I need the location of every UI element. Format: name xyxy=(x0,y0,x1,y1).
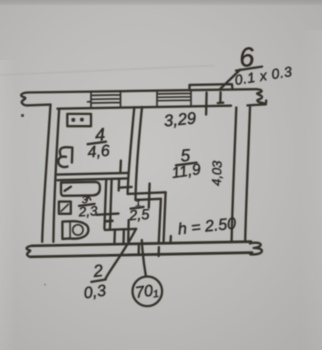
wall: top exterior, bottom line left stub xyxy=(27,103,51,106)
door tick hallway/room5 xyxy=(148,184,151,208)
closet door jamb ticks xyxy=(114,220,128,244)
wall: bathroom/hallway, left line xyxy=(104,180,106,229)
svg-text:4,6: 4,6 xyxy=(87,143,111,162)
underline of 1 xyxy=(131,207,144,209)
wall: hallway top, bottom line xyxy=(136,199,161,200)
bathtub xyxy=(61,182,100,196)
underline of 4 xyxy=(88,142,106,145)
underline of 3 xyxy=(79,204,95,206)
stove in kitchen xyxy=(67,114,91,126)
wall: bathroom/hallway, right line xyxy=(110,180,112,229)
svg-text:0,3: 0,3 xyxy=(83,283,107,303)
wall: bottom exterior, top line xyxy=(32,242,251,246)
balcony door jamb ticks xyxy=(206,92,223,114)
door symbol room4 bottom-left xyxy=(58,147,72,167)
wall: right exterior, left line xyxy=(232,108,237,242)
vent box 6 above wall xyxy=(190,84,233,90)
window W2 in top wall xyxy=(157,90,191,106)
leader line to circle 70 xyxy=(142,240,146,276)
door tick across hallway-left wall xyxy=(121,186,132,189)
wall break: top-right zigzag xyxy=(256,89,266,104)
wall: bottom exterior, bottom line xyxy=(31,253,253,257)
svg-text:2,5: 2,5 xyxy=(128,207,151,225)
wall: top exterior, inner line xyxy=(58,106,232,109)
wall: room4/room5 partition, right line xyxy=(136,107,143,200)
bathtub faucet tick xyxy=(65,187,71,191)
wall break: top-left zigzag xyxy=(21,93,27,106)
wall break: bottom-right zigzag xyxy=(250,243,262,255)
wall: top exterior, right stub bottom line with hook xyxy=(248,101,267,106)
ink speck xyxy=(44,284,46,286)
handwritten labels xyxy=(77,42,293,303)
ink speck xyxy=(21,114,24,117)
wall: top exterior, top line xyxy=(27,89,256,92)
wall: room4/bathroom, bottom line xyxy=(58,178,128,180)
wall: room4/bathroom, top line xyxy=(58,173,129,175)
side light strips xyxy=(0,0,1,1)
wall: hallway right, left line xyxy=(159,199,161,244)
closet (room 2) top line xyxy=(105,229,136,230)
svg-text:2,3: 2,3 xyxy=(77,203,98,219)
wall: left exterior, inner line xyxy=(53,109,59,242)
paper crease line xyxy=(0,66,215,76)
window W1 in top wall xyxy=(88,91,121,107)
underline of 2 xyxy=(91,280,105,282)
toilet xyxy=(62,221,88,239)
underline of 5 xyxy=(176,163,197,166)
bathtub drain mark xyxy=(87,196,91,201)
top edge shadow xyxy=(0,0,322,6)
wall: hallway top, top line xyxy=(128,192,166,194)
wall: right exterior, right line xyxy=(245,107,250,242)
stove burners xyxy=(71,118,84,122)
svg-text:70₁: 70₁ xyxy=(134,282,159,302)
door dash bathroom (2,3 leader) xyxy=(97,214,119,215)
wall: hallway right, right line xyxy=(164,192,166,243)
sink box on left wall xyxy=(59,202,71,214)
wall break: bottom-left zigzag xyxy=(27,246,32,257)
circle apartment number 70 xyxy=(133,277,163,307)
leader line from label 0,3 to closet xyxy=(105,229,136,279)
door jambs room4/hallway xyxy=(119,161,121,191)
wall: left exterior, outer line xyxy=(42,105,50,242)
svg-text:4,03: 4,03 xyxy=(209,159,225,187)
hinge tick on bathroom wall xyxy=(106,220,113,223)
leader line from vent box to label 6 xyxy=(220,70,241,90)
underline of 6 xyxy=(236,67,262,71)
entrance door ticks in bottom wall xyxy=(139,236,171,256)
svg-text:3,29: 3,29 xyxy=(163,109,197,130)
svg-text:4: 4 xyxy=(94,124,105,145)
wall: room4/room5 partition, left line xyxy=(128,107,135,194)
